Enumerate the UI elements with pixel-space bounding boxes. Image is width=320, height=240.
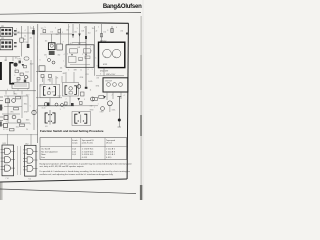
svg-text:1TR1: 1TR1 xyxy=(25,42,29,44)
connector J2 xyxy=(0,38,13,50)
svg-text:6: 6 xyxy=(64,107,65,109)
svg-text:1IC2: 1IC2 xyxy=(25,144,28,146)
svg-text:7 14: 7 14 xyxy=(6,178,9,180)
svg-text:Tape speed: Tape speed xyxy=(106,140,115,142)
transistor Q9 xyxy=(12,99,16,103)
svg-text:1TR2: 1TR2 xyxy=(18,59,22,61)
node labels left margin xyxy=(3,129,28,131)
svg-text:10k: 10k xyxy=(60,68,63,70)
label scatter mid band xyxy=(63,47,102,76)
table column line 2 xyxy=(80,138,82,160)
relay K2 xyxy=(39,66,45,71)
page bottom-left edge smudge xyxy=(0,183,3,201)
svg-text:4: 4 xyxy=(64,54,65,56)
resistor R6 xyxy=(81,92,85,96)
wires under solenoid xyxy=(107,92,121,100)
diode D1 xyxy=(22,64,25,66)
capacitor C4 xyxy=(85,36,87,39)
svg-text:1C5: 1C5 xyxy=(103,31,106,33)
svg-text:1IC1: 1IC1 xyxy=(3,143,6,145)
svg-text:2-track: 2-track xyxy=(72,142,77,145)
capacitor C5 xyxy=(111,26,113,33)
svg-text:1P2: 1P2 xyxy=(1,38,4,40)
connector pin marks xyxy=(14,30,17,47)
diode D3 xyxy=(78,24,80,45)
resistor R3 xyxy=(20,73,23,76)
svg-text:0R20: 0R20 xyxy=(90,109,94,111)
transistor Q16 xyxy=(44,103,47,106)
svg-text:1C10: 1C10 xyxy=(26,94,30,96)
svg-text:1R2: 1R2 xyxy=(17,32,20,34)
wire horizontal mid xyxy=(36,71,62,73)
svg-text:0L1: 0L1 xyxy=(45,126,48,128)
svg-text:2: 21,5 B: 60,5: 2: 21,5 B: 60,5 xyxy=(82,151,93,153)
svg-text:8: 8 xyxy=(18,90,19,92)
resistor R4 xyxy=(41,75,44,83)
gate U2a xyxy=(27,149,33,155)
svg-text:4: 61,5: 4: 61,5 xyxy=(82,157,87,159)
gate U1b xyxy=(5,157,11,163)
svg-text:7 14: 7 14 xyxy=(28,178,31,180)
svg-text:1C4: 1C4 xyxy=(88,33,91,35)
wire above IC row xyxy=(0,134,38,136)
label scatter left band xyxy=(4,57,33,91)
svg-text:6: 6 xyxy=(88,69,89,71)
resistor R5 xyxy=(49,75,52,83)
page right edge shading xyxy=(140,0,144,200)
svg-text:0R6: 0R6 xyxy=(48,79,51,81)
transistor Q10 xyxy=(12,115,16,119)
svg-text:3: 3 xyxy=(69,27,70,29)
left edge connector stub xyxy=(0,105,2,111)
transistor Q4 xyxy=(48,59,51,62)
wire stub right top xyxy=(95,24,103,76)
svg-text:5: 5 xyxy=(30,105,31,107)
svg-text:1TR5: 1TR5 xyxy=(10,112,14,114)
svg-text:4-track: 4-track xyxy=(72,139,77,142)
svg-text:1C12: 1C12 xyxy=(16,126,20,128)
svg-text:3 0,5: 3 0,5 xyxy=(72,154,76,156)
svg-text:If a possible h.f. interferenc: If a possible h.f. interference is heard… xyxy=(40,170,131,173)
table header text xyxy=(72,139,115,145)
wire mid-top horizontal xyxy=(40,33,72,35)
IC U1 pins xyxy=(1,150,15,170)
svg-text:unit, fairly to 4R, 4R, 8R and: unit, fairly to 4R, 4R, 8R and 8R speake… xyxy=(40,165,85,168)
svg-text:1: 1 xyxy=(98,103,99,105)
svg-text:1D4: 1D4 xyxy=(92,28,95,30)
top rule line xyxy=(0,12,141,14)
switch S2 xyxy=(57,44,63,50)
shielded cable bracket xyxy=(10,63,14,84)
svg-text:8: 8 xyxy=(97,65,98,67)
connector pin block P4 xyxy=(4,116,8,120)
svg-text:Bang&Olufsen: Bang&Olufsen xyxy=(103,4,142,10)
svg-text:Tape speed 9,5: Tape speed 9,5 xyxy=(82,140,94,142)
transistor Q3 xyxy=(24,75,27,78)
svg-text:Norm: Norm xyxy=(41,153,46,156)
left page edge black bar xyxy=(0,62,2,80)
svg-text:4: 4 xyxy=(25,30,26,32)
resistor R14 xyxy=(99,96,104,99)
resistor R15 xyxy=(24,66,27,68)
svg-text:7: 7 xyxy=(63,42,64,44)
svg-text:1C14: 1C14 xyxy=(25,71,29,73)
svg-text:2: 2 xyxy=(112,95,113,97)
svg-text:1: 1 xyxy=(77,28,78,30)
svg-text:2: 2 xyxy=(66,99,67,101)
svg-text:0T2: 0T2 xyxy=(90,105,93,107)
connector J1 xyxy=(0,26,13,36)
svg-text:0U3: 0U3 xyxy=(77,47,80,49)
transistor Q14 xyxy=(61,104,64,107)
svg-text:22k: 22k xyxy=(30,37,33,39)
svg-text:2: 2 xyxy=(30,123,31,125)
svg-text:1k5: 1k5 xyxy=(45,41,48,43)
schematic frame bottom edge xyxy=(0,179,127,182)
capacitor C7 xyxy=(71,103,74,106)
svg-text:0C6: 0C6 xyxy=(120,30,123,32)
svg-text:4: 4 xyxy=(36,109,37,111)
resistor R16 xyxy=(17,78,20,80)
wire into U3 xyxy=(72,42,86,44)
svg-text:0SW 0SW: 0SW 0SW xyxy=(105,81,113,83)
table border xyxy=(40,138,127,160)
relay coil RL1 xyxy=(24,57,29,60)
resistor R10 xyxy=(10,129,15,131)
svg-text:1D5: 1D5 xyxy=(15,57,18,59)
svg-text:0C13: 0C13 xyxy=(42,108,46,110)
svg-text:1R16: 1R16 xyxy=(24,111,28,113)
svg-text:Free: Free xyxy=(41,156,45,159)
svg-text:0R9: 0R9 xyxy=(63,73,66,75)
IC pin number labels xyxy=(6,178,32,180)
capacitor C2 xyxy=(43,30,46,33)
schematic frame right edge xyxy=(127,23,128,179)
wire stub centre xyxy=(60,28,62,44)
svg-text:1P1: 1P1 xyxy=(1,26,4,28)
capacitor C8 xyxy=(24,80,26,83)
svg-text:0P1: 0P1 xyxy=(70,43,73,45)
svg-text:4: 81,5: 4: 81,5 xyxy=(106,157,111,159)
svg-text:47n 250V: 47n 250V xyxy=(108,74,116,76)
svg-text:1k 47k: 1k 47k xyxy=(88,81,93,83)
wire stub right of S2 xyxy=(68,24,70,45)
svg-text:1: 17,5 B: 90,5: 1: 17,5 B: 90,5 xyxy=(82,149,93,151)
svg-text:1k: 1k xyxy=(24,36,26,38)
gate U2b xyxy=(27,157,33,163)
wire lower-left header xyxy=(0,57,20,61)
svg-text:3: 3 xyxy=(60,109,61,111)
svg-text:1C3: 1C3 xyxy=(50,32,53,34)
svg-text:1C2: 1C2 xyxy=(41,28,44,30)
vertical bus wire mid xyxy=(36,24,39,143)
svg-text:0R7: 0R7 xyxy=(52,92,55,94)
IC U2 xyxy=(25,144,37,177)
transistor Q12 xyxy=(32,110,36,114)
svg-text:Background speakers with the c: Background speakers with the connections… xyxy=(40,162,133,165)
solenoid box U4 xyxy=(103,78,128,92)
table header row line xyxy=(40,145,127,147)
svg-text:1n: 1n xyxy=(80,70,82,72)
resistor R13 xyxy=(93,98,98,101)
svg-text:4: 4 xyxy=(124,95,125,97)
svg-text:0R8: 0R8 xyxy=(74,70,77,72)
IC U1 xyxy=(2,143,14,176)
svg-text:0V1: 0V1 xyxy=(79,60,82,62)
svg-text:1S2: 1S2 xyxy=(4,60,7,62)
svg-text:1R20: 1R20 xyxy=(30,64,34,66)
gate U2c xyxy=(27,165,33,171)
svg-text:1R12: 1R12 xyxy=(14,94,18,96)
wires above IC blocks xyxy=(8,134,32,145)
diode D2 xyxy=(72,24,74,38)
svg-text:9: 9 xyxy=(6,121,7,123)
ground symbol centre bus xyxy=(85,87,88,89)
motor M1 xyxy=(99,40,125,72)
svg-text:S1 105: S1 105 xyxy=(3,129,8,131)
tape head assembly A xyxy=(40,84,60,97)
svg-text:1R14: 1R14 xyxy=(24,104,28,106)
svg-text:0TR7: 0TR7 xyxy=(100,112,104,114)
vertical wires into heads xyxy=(44,72,74,84)
erase head H1 xyxy=(45,110,55,128)
svg-text:0C8: 0C8 xyxy=(58,95,61,97)
svg-text:1 6,3: 1 6,3 xyxy=(72,149,76,151)
svg-text:0R4: 0R4 xyxy=(56,34,59,36)
svg-text:5: 5 xyxy=(45,27,46,29)
svg-text:1D2: 1D2 xyxy=(74,31,77,33)
vertical bus wire centre xyxy=(85,26,87,88)
left edge connector stub 2 xyxy=(0,122,2,127)
note paragraph 2 xyxy=(40,170,131,176)
svg-text:0P2: 0P2 xyxy=(78,43,81,45)
transistor Q11 xyxy=(17,119,21,123)
transistor Q8 xyxy=(91,97,95,101)
svg-text:0SOL: 0SOL xyxy=(112,109,116,111)
svg-text:19 cm/s: 19 cm/s xyxy=(106,143,112,145)
svg-text:On, Start B: On, Start B xyxy=(41,148,50,151)
gate U1a xyxy=(5,148,11,154)
svg-text:470u 63V: 470u 63V xyxy=(100,71,109,73)
gate U1c xyxy=(5,165,11,171)
svg-text:1R18: 1R18 xyxy=(26,120,30,122)
wires between gate ICs xyxy=(18,146,21,175)
svg-text:8: 8 xyxy=(44,89,45,91)
table column line 1 xyxy=(70,138,72,160)
note paragraph 1 xyxy=(40,162,133,168)
resistor R7 xyxy=(16,97,21,99)
resistor R9 xyxy=(20,124,25,126)
junction on frame edge xyxy=(126,32,128,34)
diode D5 xyxy=(77,98,80,101)
svg-text:3: 41,5 B: 10,5: 3: 41,5 B: 10,5 xyxy=(82,154,93,156)
resistor R11 xyxy=(65,102,68,105)
switch block S1 xyxy=(12,83,29,89)
svg-text:1: 1 xyxy=(92,69,93,71)
table column line 3 xyxy=(104,138,106,160)
svg-text:0C7: 0C7 xyxy=(40,85,43,87)
schematic frame top edge xyxy=(0,22,129,24)
diode D4 xyxy=(103,96,106,99)
left lower wires xyxy=(2,96,30,123)
transistor Q5 xyxy=(52,61,55,64)
wire below head A xyxy=(36,97,62,99)
wire under motor xyxy=(96,68,124,77)
transformer T1 core xyxy=(49,51,55,55)
table body text xyxy=(41,148,115,159)
record head H2 xyxy=(72,112,91,126)
transistor Q7 xyxy=(77,85,81,89)
svg-text:Function Switch and Actual Set: Function Switch and Actual Setting Proce… xyxy=(40,129,104,133)
IC U2 pins xyxy=(23,150,37,170)
svg-text:6: 6 xyxy=(40,60,41,62)
transistor Q15 xyxy=(101,107,105,111)
svg-text:1D3: 1D3 xyxy=(81,30,84,32)
capacitor C1 xyxy=(30,26,35,35)
connector pin block P3 xyxy=(6,99,10,103)
svg-text:0R11: 0R11 xyxy=(96,85,100,87)
control box U3 xyxy=(66,45,94,68)
vertical bus wire left xyxy=(33,28,35,130)
svg-text:1D1: 1D1 xyxy=(66,29,69,31)
svg-text:1k: 1k xyxy=(90,89,92,91)
component value labels scatter xyxy=(6,28,125,128)
svg-text:2: 41,5 B: 8: 2: 41,5 B: 8 xyxy=(106,151,115,153)
svg-text:1R1: 1R1 xyxy=(23,39,26,41)
svg-text:3: 3 xyxy=(8,105,9,107)
svg-text:Rec level adjustment: Rec level adjustment xyxy=(41,150,58,153)
resistor R2 xyxy=(15,70,18,73)
resistor R1 xyxy=(20,26,26,57)
svg-text:and 4,75 cm/s: and 4,75 cm/s xyxy=(82,143,93,145)
svg-text:0M1 12: 0M1 12 xyxy=(100,40,106,42)
svg-text:0S1: 0S1 xyxy=(44,54,47,56)
wire horizontal left xyxy=(0,91,36,95)
bottom rule line xyxy=(0,189,136,194)
svg-text:2 4,5: 2 4,5 xyxy=(72,151,76,153)
label scatter top band xyxy=(17,27,123,34)
svg-text:0S2: 0S2 xyxy=(58,55,61,57)
capacitor C6 xyxy=(47,103,50,106)
svg-text:3: 61,5 B: 9: 3: 61,5 B: 9 xyxy=(106,154,115,156)
svg-text:P6: P6 xyxy=(26,129,28,131)
svg-text:1: 21,5 B: 5: 1: 21,5 B: 5 xyxy=(106,149,115,151)
transistor Q1 xyxy=(25,26,30,48)
capacitor C3 xyxy=(58,30,61,33)
svg-text:47k: 47k xyxy=(56,77,59,79)
svg-text:0C9: 0C9 xyxy=(96,77,99,79)
svg-text:0TR4: 0TR4 xyxy=(80,77,84,79)
wire K1 to bus xyxy=(51,34,53,43)
svg-text:63V: 63V xyxy=(106,74,109,76)
tape head assembly B xyxy=(63,83,79,97)
transistor Q13 xyxy=(55,103,58,106)
svg-text:22: 22 xyxy=(96,31,98,33)
wire horizontal lower mid xyxy=(38,76,98,106)
svg-text:M 33: M 33 xyxy=(103,64,107,66)
resistor R12 xyxy=(80,102,83,105)
wire branch left mid xyxy=(30,60,32,82)
svg-text:oscillator coil, and adjusting: oscillator coil, and adjusting the trimm… xyxy=(40,173,114,176)
relay K1 xyxy=(48,43,55,50)
solenoid plunger xyxy=(117,97,121,128)
resistor R8 xyxy=(14,108,19,110)
transistor Q6 xyxy=(108,101,113,112)
left edge pin ticks xyxy=(0,97,3,125)
wire node J1 to bus xyxy=(13,32,34,34)
transistor Q2 xyxy=(14,59,22,67)
svg-text:0C11: 0C11 xyxy=(85,74,89,76)
connector pin block P5 xyxy=(4,124,8,128)
svg-text:1R22: 1R22 xyxy=(16,81,20,83)
